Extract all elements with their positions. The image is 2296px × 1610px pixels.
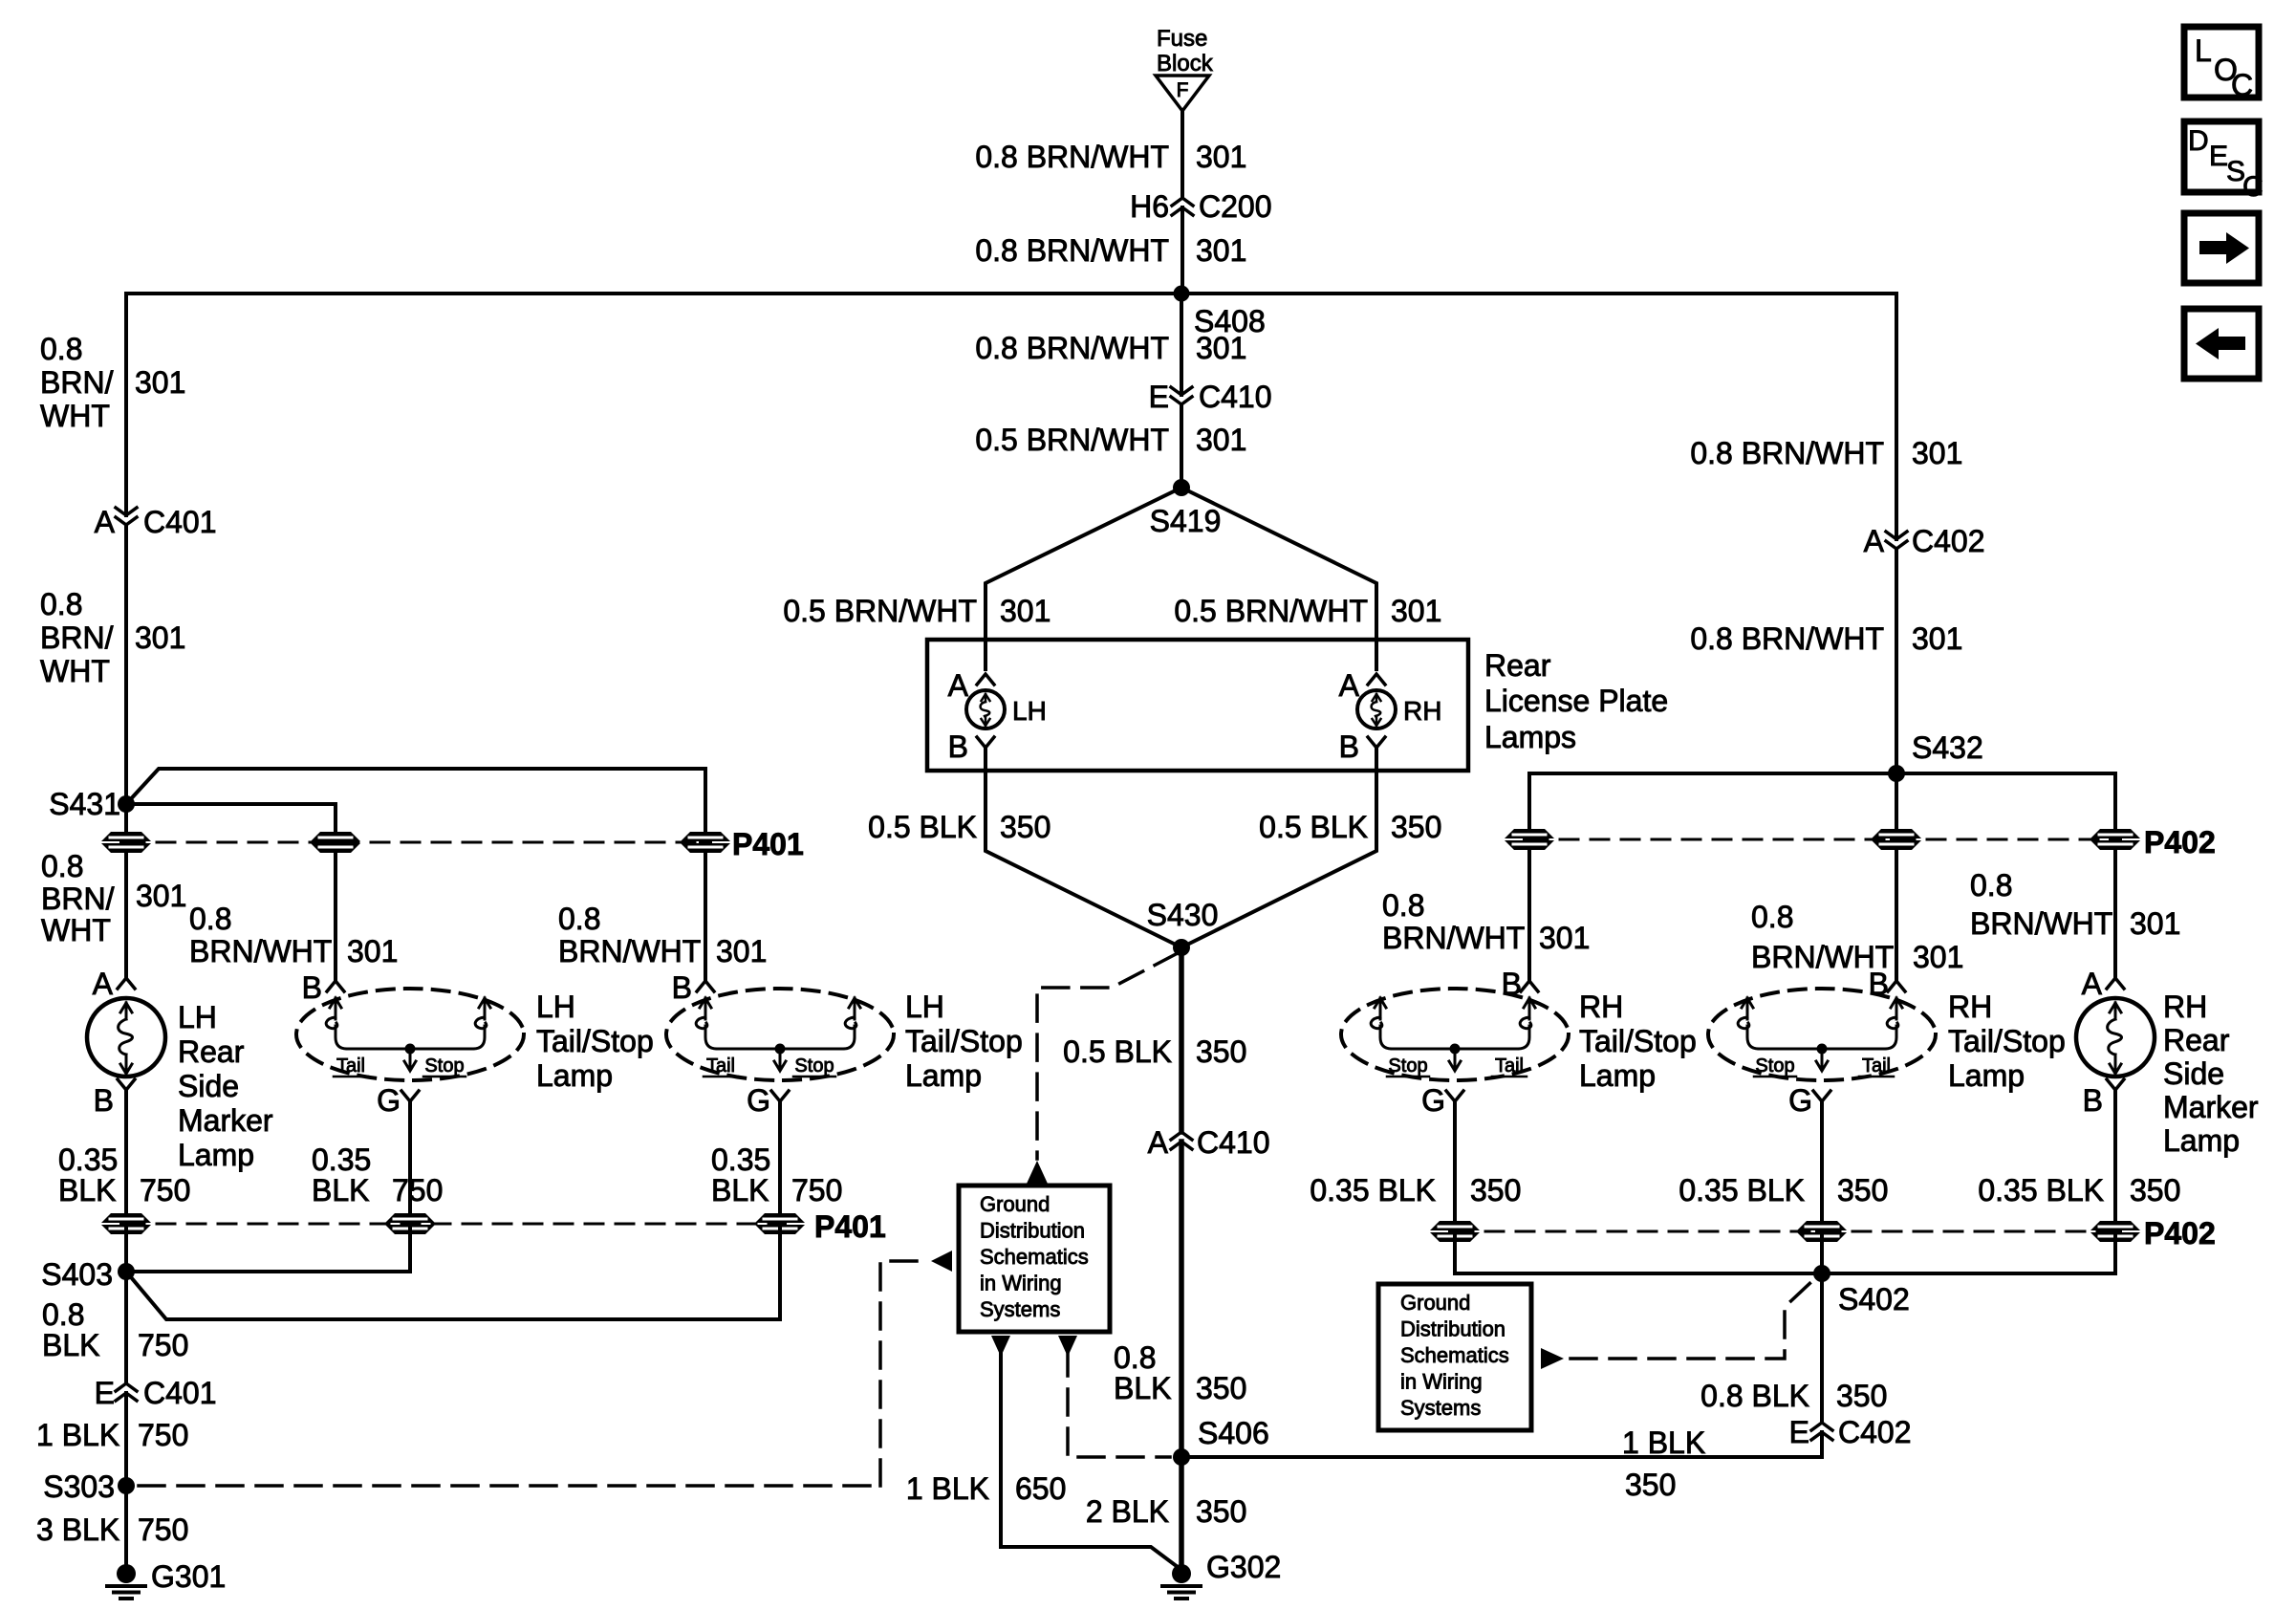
label 0.8 BRN/WHT 301 (RH marker): [1970, 868, 2180, 941]
svg-text:in Wiring: in Wiring: [980, 1272, 1062, 1295]
splice S419: [1150, 479, 1222, 538]
svg-text:3 BLK: 3 BLK: [36, 1512, 119, 1547]
terminal B of outer LH tail/stop lamp: [672, 970, 714, 1005]
svg-text:301: 301: [1196, 331, 1246, 365]
splice S431: [49, 787, 135, 821]
svg-text:A: A: [1864, 524, 1885, 558]
svg-text:0.8: 0.8: [42, 1297, 84, 1332]
svg-text:0.8 BRN/WHT: 0.8 BRN/WHT: [1690, 621, 1884, 656]
svg-text:BLK: BLK: [312, 1173, 369, 1207]
label 0.8 BRN/WHT 301 (right, below C402): [1690, 621, 1962, 656]
svg-text:C: C: [2242, 171, 2264, 203]
label 2 BLK 350: [1086, 1494, 1247, 1529]
svg-text:0.35 BLK: 0.35 BLK: [1978, 1173, 2104, 1207]
splice S402: [1813, 1265, 1910, 1316]
ground G302: [1162, 1550, 1281, 1599]
svg-text:750: 750: [791, 1173, 842, 1207]
wire: S431 down to LH marker lamp: [124, 804, 128, 838]
wire: S403 to outer LH tail G: [126, 1272, 780, 1319]
svg-text:350: 350: [1837, 1173, 1888, 1207]
label 0.5 BRN/WHT 301 (LH license): [783, 594, 1051, 628]
svg-text:Stop: Stop: [1388, 1055, 1427, 1077]
svg-text:0.5 BLK: 0.5 BLK: [1259, 810, 1368, 844]
label 0.8 BRN/WHT 301 (above C200): [975, 140, 1246, 174]
svg-text:0.8: 0.8: [1970, 868, 2012, 903]
svg-text:A: A: [93, 967, 114, 1001]
svg-text:301: 301: [1912, 436, 1962, 470]
svg-text:Side: Side: [178, 1069, 239, 1103]
dashed harness line P402 (upper): [1529, 838, 2115, 841]
svg-text:Lamp: Lamp: [905, 1058, 982, 1093]
svg-text:350: 350: [1470, 1173, 1521, 1207]
dashed harness line P401 (upper): [126, 841, 705, 844]
grommet P402 on RH marker B wire: [2090, 1221, 2140, 1242]
svg-text:BRN/: BRN/: [40, 620, 114, 655]
grommet P402 on inner RH tail G wire: [1430, 1221, 1480, 1242]
terminal G of outer LH tail/stop lamp: [747, 1083, 789, 1118]
svg-text:BRN/: BRN/: [40, 365, 114, 400]
svg-text:H6: H6: [1130, 189, 1169, 224]
svg-text:1 BLK: 1 BLK: [906, 1471, 989, 1506]
grommet P401 on outer LH tail G wire: [755, 1213, 805, 1234]
svg-text:C402: C402: [1912, 524, 1985, 558]
svg-text:Tail: Tail: [1495, 1055, 1524, 1077]
wire: LH marker B down: [124, 1090, 128, 1219]
label LH Tail/Stop Lamp (inner): [536, 990, 654, 1093]
svg-text:C: C: [2231, 68, 2253, 102]
label 0.5 BRN/WHT 301 (RH license): [1174, 594, 1441, 628]
svg-text:RH: RH: [1403, 696, 1441, 726]
wire: S432 branch to inner RH tail lamp (B): [1529, 773, 1896, 834]
svg-text:301: 301: [136, 879, 186, 913]
wire: S431 branch to outer LH tail lamp (B): [126, 769, 705, 838]
terminal B of RH license lamp: [1339, 729, 1385, 764]
svg-text:S431: S431: [49, 787, 120, 821]
svg-text:Distribution: Distribution: [1400, 1317, 1505, 1341]
wire: C401 to S303: [124, 1393, 128, 1486]
svg-text:S403: S403: [41, 1257, 113, 1292]
splice S303: [43, 1469, 135, 1504]
svg-text:Tail/Stop: Tail/Stop: [905, 1024, 1023, 1058]
svg-text:301: 301: [1539, 921, 1590, 955]
wire: inner LH tail lamp G down: [408, 1101, 412, 1219]
svg-text:301: 301: [2130, 906, 2180, 941]
wire: S403 down to C401: [124, 1272, 128, 1383]
connector C402 pin E: [1789, 1415, 1912, 1449]
svg-text:0.5 BRN/WHT: 0.5 BRN/WHT: [783, 594, 977, 628]
inner LH tail/stop lamp: [296, 989, 524, 1080]
wire: S402 down to C402: [1820, 1273, 1824, 1423]
splice S406: [1173, 1416, 1269, 1466]
connector C401 pin E: [95, 1376, 217, 1410]
label 0.8 BLK 350 (below S402): [1700, 1379, 1887, 1413]
svg-text:0.8: 0.8: [189, 902, 231, 936]
terminal B of LH license lamp: [948, 729, 994, 764]
terminal B of RH marker lamp: [2083, 1079, 2124, 1118]
svg-text:301: 301: [347, 934, 398, 968]
svg-text:Tail/Stop: Tail/Stop: [1948, 1024, 2066, 1058]
svg-text:LH: LH: [536, 990, 575, 1024]
wire: S432 down to outer RH tail lamp (B): [1895, 773, 1898, 835]
wire: C402 to S406 rail: [1820, 1432, 1824, 1457]
wire: fuse block to C200: [1180, 111, 1184, 198]
label Rear License Plate Lamps: [1484, 648, 1668, 754]
grommet P402 on RH marker A wire: [2090, 829, 2140, 850]
svg-text:C401: C401: [143, 1376, 217, 1410]
left-arrow legend box: [2184, 309, 2259, 379]
svg-text:Lamp: Lamp: [178, 1138, 254, 1172]
svg-text:Tail: Tail: [336, 1055, 365, 1077]
svg-text:650: 650: [1015, 1471, 1066, 1506]
svg-text:Ground: Ground: [1400, 1291, 1470, 1315]
terminal G of inner LH tail/stop lamp: [377, 1083, 419, 1118]
terminal B of inner LH tail/stop lamp: [302, 970, 344, 1005]
fuse block triangle F: [1156, 76, 1209, 111]
svg-text:E: E: [1149, 380, 1169, 414]
svg-text:1 BLK: 1 BLK: [1622, 1425, 1705, 1460]
label RH Tail/Stop Lamp (outer): [1948, 990, 2066, 1093]
svg-text:Stop: Stop: [794, 1055, 834, 1077]
svg-text:Schematics: Schematics: [1400, 1343, 1509, 1367]
svg-text:S430: S430: [1147, 898, 1219, 932]
svg-text:301: 301: [1196, 233, 1246, 268]
label 0.5 BRN/WHT 301 (C410 to S419): [975, 423, 1246, 457]
svg-text:BRN/: BRN/: [41, 881, 115, 916]
svg-text:P402: P402: [2144, 1216, 2216, 1251]
ground G301: [107, 1559, 226, 1599]
label 0.35 BLK 750 (inner LH tail lamp): [312, 1142, 443, 1207]
svg-text:LH: LH: [905, 990, 944, 1024]
label 0.8 BRN/WHT 301 (below C200): [975, 233, 1246, 268]
svg-text:LH: LH: [178, 1000, 217, 1034]
connector C401 pin A: [95, 505, 217, 539]
svg-text:750: 750: [138, 1418, 188, 1452]
svg-text:Tail: Tail: [1862, 1055, 1891, 1077]
svg-text:S303: S303: [43, 1469, 115, 1504]
svg-text:301: 301: [135, 620, 185, 655]
inner RH tail/stop lamp: [1341, 989, 1569, 1080]
svg-text:BLK: BLK: [1114, 1371, 1171, 1405]
label 3 BLK 750: [36, 1512, 188, 1547]
svg-text:B: B: [672, 970, 692, 1005]
svg-text:Block: Block: [1157, 51, 1214, 76]
dashed wire: S430 to ground distribution reference: [1037, 953, 1178, 1159]
label 0.8 BLK 750: [42, 1297, 188, 1362]
svg-text:D: D: [2188, 125, 2209, 157]
terminal G of outer RH tail/stop lamp: [1788, 1083, 1830, 1118]
svg-text:L: L: [2195, 33, 2212, 68]
RH license plate lamp: [1357, 690, 1441, 729]
svg-text:350: 350: [2130, 1173, 2180, 1207]
arrowhead down + wire 1 BLK 650 to G302: [991, 1336, 1010, 1357]
grommet P402 on outer RH tail B wire: [1872, 829, 1921, 850]
svg-text:License Plate: License Plate: [1484, 684, 1668, 718]
svg-text:1 BLK: 1 BLK: [36, 1418, 119, 1452]
svg-text:301: 301: [1913, 940, 1963, 974]
svg-text:S406: S406: [1198, 1416, 1269, 1450]
svg-text:Systems: Systems: [1400, 1396, 1481, 1420]
svg-text:A: A: [2082, 967, 2103, 1001]
svg-text:BRN/WHT: BRN/WHT: [1382, 921, 1525, 955]
LH license plate lamp: [966, 690, 1047, 729]
grommet P401 on LH marker wire: [101, 832, 151, 853]
svg-text:0.35: 0.35: [58, 1142, 118, 1177]
wire: top rail S408: [126, 292, 1896, 295]
wire: S408 to C410: [1180, 294, 1183, 395]
svg-text:750: 750: [138, 1512, 188, 1547]
label 0.35 BLK 750 (LH marker): [58, 1142, 190, 1207]
svg-text:0.8: 0.8: [41, 849, 83, 883]
svg-text:0.8: 0.8: [40, 332, 82, 366]
svg-text:P401: P401: [732, 827, 804, 861]
svg-text:S432: S432: [1912, 730, 1983, 765]
terminal A of LH marker lamp: [93, 967, 135, 1001]
svg-text:RH: RH: [2163, 990, 2207, 1024]
outer RH tail/stop lamp: [1708, 989, 1936, 1080]
wire: S432 branch to RH marker lamp (A): [1896, 773, 2115, 835]
svg-text:BLK: BLK: [58, 1173, 116, 1207]
wire: C410 to S406: [1179, 1142, 1184, 1457]
svg-text:350: 350: [1625, 1468, 1676, 1502]
wire: S430 to C410: [1179, 947, 1184, 1132]
arrowhead down + dashed wire to S406: [1058, 1336, 1077, 1357]
svg-text:G: G: [747, 1083, 770, 1118]
svg-text:C410: C410: [1199, 380, 1272, 414]
svg-text:750: 750: [392, 1173, 443, 1207]
terminal A of LH license lamp: [948, 668, 994, 703]
svg-text:Lamp: Lamp: [536, 1058, 613, 1093]
svg-text:Tail/Stop: Tail/Stop: [536, 1024, 654, 1058]
svg-text:A: A: [1339, 668, 1360, 703]
ground distribution reference box (right): [1378, 1284, 1531, 1430]
label RH Rear Side Marker Lamp: [2163, 990, 2259, 1158]
svg-text:0.8 BRN/WHT: 0.8 BRN/WHT: [1690, 436, 1884, 470]
wire: S431 branch to inner LH tail lamp (B): [126, 804, 336, 838]
connector C200 pin H6: [1130, 189, 1271, 224]
svg-text:WHT: WHT: [41, 913, 111, 947]
rear license plate lamps box: [927, 640, 1468, 771]
svg-text:RH: RH: [1579, 990, 1623, 1024]
svg-text:350: 350: [1196, 1494, 1246, 1529]
wire: S419 to LH license lamp: [986, 488, 1181, 669]
label 0.8 BRN/WHT 301 (left, above C401): [40, 332, 185, 433]
wire: RH marker B down: [2113, 1090, 2117, 1227]
wire: C401 to S431: [124, 525, 128, 804]
terminal B of inner RH tail/stop lamp: [1502, 967, 1538, 1001]
svg-text:Lamps: Lamps: [1484, 720, 1576, 754]
svg-text:A: A: [95, 505, 116, 539]
splice S430: [1147, 898, 1219, 956]
svg-text:Side: Side: [2163, 1056, 2224, 1091]
svg-text:WHT: WHT: [40, 399, 110, 433]
wire: LH license B down to S430: [984, 748, 987, 771]
splice S403: [41, 1257, 135, 1292]
grommet P401 on inner LH tail G wire: [385, 1213, 435, 1234]
svg-text:2 BLK: 2 BLK: [1086, 1494, 1169, 1529]
svg-text:C200: C200: [1199, 189, 1272, 224]
svg-text:350: 350: [1000, 810, 1051, 844]
wire: C402 to S432: [1895, 549, 1898, 773]
terminal B of outer RH tail/stop lamp: [1869, 967, 1905, 1001]
wire: inner RH tail G down: [1453, 1101, 1457, 1227]
svg-text:0.5 BLK: 0.5 BLK: [1063, 1034, 1172, 1069]
svg-text:301: 301: [716, 934, 767, 968]
svg-text:301: 301: [1196, 423, 1246, 457]
svg-text:G301: G301: [151, 1559, 226, 1594]
fuse block label: [1157, 26, 1214, 76]
svg-text:Schematics: Schematics: [980, 1245, 1089, 1269]
wires below lower P401 into S403: [124, 1229, 128, 1272]
terminal A of RH license lamp: [1339, 668, 1385, 703]
label 0.8 BRN/WHT 301 (inner LH tail lamp): [189, 902, 398, 968]
splice S432: [1888, 730, 1983, 782]
svg-text:G: G: [377, 1083, 401, 1118]
svg-text:G302: G302: [1206, 1550, 1281, 1584]
ground distribution reference box (left): [959, 1186, 1110, 1332]
wire: RH license B down to S430: [1375, 748, 1378, 771]
dashed wire: S303 to ground distribution reference: [139, 1484, 880, 1488]
svg-text:0.8: 0.8: [558, 902, 600, 936]
label 0.8 BRN/WHT 301 (LH marker): [41, 849, 186, 947]
svg-text:S419: S419: [1150, 504, 1222, 538]
connector C410 pin A: [1148, 1125, 1270, 1160]
svg-text:0.8 BRN/WHT: 0.8 BRN/WHT: [975, 233, 1169, 268]
splice S408: [1174, 286, 1266, 339]
arrowhead to ground distribution box (left): [931, 1251, 952, 1272]
svg-text:BRN/WHT: BRN/WHT: [558, 934, 701, 968]
svg-text:P402: P402: [2144, 825, 2216, 859]
label 0.5 BLK 350 (below S430): [1063, 1034, 1246, 1069]
label 0.8 BRN/WHT 301 (outer LH tail lamp): [558, 902, 767, 968]
svg-text:0.8: 0.8: [1751, 900, 1793, 934]
svg-text:0.8 BRN/WHT: 0.8 BRN/WHT: [975, 331, 1169, 365]
svg-text:301: 301: [1912, 621, 1962, 656]
wire: outer LH tail lamp G down: [778, 1101, 782, 1219]
svg-text:B: B: [2083, 1083, 2103, 1118]
label 1 BLK 650: [906, 1471, 1067, 1506]
dashed harness line P401 (lower): [126, 1223, 780, 1226]
svg-text:0.35 BLK: 0.35 BLK: [1310, 1173, 1436, 1207]
wire: left drop from top rail to C401: [124, 294, 128, 515]
wire: S403 to inner LH tail G: [126, 1270, 410, 1273]
svg-text:E: E: [1789, 1415, 1809, 1449]
grommet P401 on LH marker B wire: [101, 1213, 151, 1234]
svg-text:0.5 BLK: 0.5 BLK: [868, 810, 977, 844]
label 0.35 BLK 750 (outer LH tail lamp): [711, 1142, 842, 1207]
label RH Tail/Stop Lamp (inner): [1579, 990, 1697, 1093]
svg-text:Rear: Rear: [2163, 1023, 2230, 1057]
label 0.5 BLK 350 (RH license): [1259, 810, 1441, 844]
svg-text:Systems: Systems: [980, 1297, 1060, 1321]
connector C410 pin E: [1149, 380, 1272, 414]
svg-text:Tail/Stop: Tail/Stop: [1579, 1024, 1697, 1058]
svg-text:E: E: [95, 1376, 115, 1410]
svg-text:Marker: Marker: [2163, 1090, 2259, 1124]
svg-text:0.35: 0.35: [711, 1142, 770, 1177]
svg-text:301: 301: [1391, 594, 1441, 628]
svg-text:BRN/WHT: BRN/WHT: [189, 934, 332, 968]
label 1 BLK 350 (S406-C402 run): [1622, 1425, 1705, 1502]
label 0.35 BLK 350 (inner RH tail): [1310, 1173, 1521, 1207]
svg-text:A: A: [1148, 1125, 1169, 1160]
svg-text:G: G: [1421, 1083, 1445, 1118]
svg-text:0.8: 0.8: [1382, 888, 1424, 923]
LOC legend box: [2184, 27, 2259, 102]
wire: S419 to RH license lamp: [1181, 488, 1376, 669]
svg-text:0.8: 0.8: [40, 587, 82, 621]
RH rear side marker lamp: [2076, 998, 2155, 1077]
svg-text:Marker: Marker: [178, 1103, 273, 1138]
svg-text:0.35 BLK: 0.35 BLK: [1679, 1173, 1805, 1207]
label LH Tail/Stop Lamp (outer): [905, 990, 1023, 1093]
LH rear side marker lamp: [87, 998, 165, 1077]
wire: S406 down to G302: [1179, 1457, 1184, 1566]
svg-text:B: B: [302, 970, 322, 1005]
wire: outer RH tail G down: [1820, 1101, 1824, 1227]
svg-text:301: 301: [1196, 140, 1246, 174]
svg-text:Lamp: Lamp: [1948, 1058, 2025, 1093]
svg-text:RH: RH: [1948, 990, 1992, 1024]
label 1 BLK 750: [36, 1418, 188, 1452]
svg-text:350: 350: [1391, 810, 1441, 844]
svg-text:301: 301: [1000, 594, 1051, 628]
DESC legend box: [2184, 121, 2264, 203]
grommet P401 on inner LH tail lamp wire: [311, 832, 360, 853]
wire: S406 to C402 (right): [1181, 1455, 1822, 1459]
svg-text:C401: C401: [143, 505, 217, 539]
svg-text:350: 350: [1196, 1371, 1246, 1405]
svg-text:A: A: [948, 668, 969, 703]
outer LH tail/stop lamp: [666, 989, 894, 1080]
svg-text:Lamp: Lamp: [1579, 1058, 1656, 1093]
connector C402 pin A: [1864, 524, 1985, 558]
grommet P401 on outer LH tail lamp wire: [681, 832, 730, 853]
wire: C410 to S419: [1180, 404, 1183, 488]
svg-text:0.5 BRN/WHT: 0.5 BRN/WHT: [1174, 594, 1368, 628]
svg-text:E: E: [2209, 141, 2228, 172]
arrowhead right + dashed wire to S402: [1541, 1348, 1564, 1369]
svg-text:B: B: [1339, 729, 1359, 764]
wire: S303 down to G301: [124, 1486, 128, 1568]
label 0.35 BLK 350 (RH marker): [1978, 1173, 2180, 1207]
grommet P402 on outer RH tail G wire: [1797, 1221, 1847, 1242]
label 0.8 BLK 350: [1114, 1340, 1246, 1405]
dashed harness line P402 (lower): [1455, 1230, 2115, 1233]
right-arrow legend box: [2184, 213, 2259, 283]
label 0.8 BRN/WHT 301 (inner RH tail lamp): [1382, 888, 1590, 955]
svg-text:0.8 BLK: 0.8 BLK: [1700, 1379, 1809, 1413]
svg-text:BLK: BLK: [42, 1328, 99, 1362]
label 0.8 BRN/WHT 301 (S408 to C410): [975, 331, 1246, 365]
svg-text:Stop: Stop: [424, 1055, 464, 1077]
svg-text:S402: S402: [1838, 1282, 1910, 1316]
wires into S402: [1455, 1236, 1822, 1273]
svg-text:Fuse: Fuse: [1157, 26, 1207, 52]
label 0.35 BLK 350 (outer RH tail): [1679, 1173, 1888, 1207]
svg-text:BLK: BLK: [711, 1173, 769, 1207]
svg-text:F: F: [1177, 79, 1189, 101]
wire: right drop from top rail to C402: [1895, 294, 1898, 539]
label 0.8 BRN/WHT 301 (outer RH tail lamp): [1751, 900, 1963, 974]
svg-text:P401: P401: [814, 1209, 886, 1244]
terminal G of inner RH tail/stop lamp: [1421, 1083, 1463, 1118]
svg-text:Lamp: Lamp: [2163, 1123, 2240, 1158]
svg-text:Stop: Stop: [1755, 1055, 1794, 1077]
label 0.5 BLK 350 (LH license): [868, 810, 1051, 844]
wire: C200 to S408: [1180, 207, 1184, 294]
arrowhead (up) above left ground box: [1027, 1161, 1048, 1184]
svg-text:Ground: Ground: [980, 1192, 1050, 1216]
